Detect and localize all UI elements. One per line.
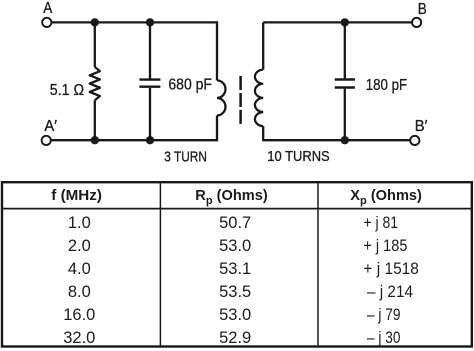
wire: top rail to primary coil top corner: [150, 22, 217, 80]
svg-text:180 pF: 180 pF: [366, 77, 407, 94]
table column separator 1: [159, 183, 161, 345]
svg-text:8.0: 8.0: [68, 283, 91, 301]
inductor secondary coil (10 TURNS): [255, 70, 263, 127]
capacitor C1 680 pF top plate: [139, 78, 160, 80]
svg-text:10 TURNS: 10 TURNS: [267, 149, 329, 165]
transformer core (dashed): [239, 76, 242, 124]
svg-text:A′: A′: [44, 118, 57, 135]
wire: A to resistor node (top rail): [52, 21, 95, 23]
svg-text:– j 79: – j 79: [367, 306, 401, 324]
terminal A': [42, 136, 51, 145]
wire: secondary coil top corner to top rail: [263, 22, 345, 69]
table header underline: [3, 208, 471, 210]
svg-text:16.0: 16.0: [63, 306, 95, 324]
wire: secondary coil bottom to bottom rail: [263, 126, 345, 140]
junction: top of 180 pF capacitor: [341, 18, 349, 26]
junction: top of 680 pF capacitor: [146, 18, 154, 26]
svg-text:– j 214: – j 214: [367, 283, 413, 301]
svg-text:4.0: 4.0: [68, 260, 91, 278]
wire: primary coil bottom to bottom rail corner: [150, 116, 217, 141]
svg-text:1.0: 1.0: [68, 214, 91, 232]
svg-text:680 pF: 680 pF: [168, 76, 212, 93]
terminal B': [410, 136, 419, 145]
svg-text:f (MHz): f (MHz): [51, 188, 102, 204]
svg-text:2.0: 2.0: [68, 237, 91, 255]
junction: bottom of 680 pF capacitor: [146, 136, 154, 144]
capacitor C2 180 pF bottom plate: [335, 86, 355, 88]
svg-text:Rp (Ohms): Rp (Ohms): [195, 188, 268, 207]
svg-text:53.0: 53.0: [219, 306, 251, 324]
svg-text:5.1 Ω: 5.1 Ω: [50, 82, 84, 99]
wire: resistor node to A': [51, 139, 94, 141]
table column separator 2: [317, 183, 319, 345]
resistor 5.1 ohm: [90, 67, 100, 100]
capacitor C2 180 pF bottom lead: [344, 89, 346, 141]
table frame: [2, 182, 472, 346]
capacitor C1 680 pF bottom plate: [139, 85, 160, 87]
svg-text:+ j 81: + j 81: [364, 214, 399, 232]
svg-text:B: B: [418, 1, 427, 18]
svg-text:50.7: 50.7: [219, 214, 251, 232]
svg-text:53.5: 53.5: [219, 283, 251, 301]
svg-text:B′: B′: [415, 118, 428, 135]
wire: capacitor node to B: [345, 21, 412, 23]
svg-text:– j 30: – j 30: [367, 329, 401, 347]
svg-text:53.0: 53.0: [219, 237, 251, 255]
svg-text:+ j 185: + j 185: [363, 237, 407, 255]
wire: resistor branch top lead: [94, 22, 96, 67]
inductor primary coil (3 TURN): [217, 80, 225, 115]
terminal B: [412, 18, 421, 27]
capacitor C2 180 pF top plate: [335, 78, 355, 80]
wire: resistor node to capacitor node (top rail): [95, 21, 150, 23]
svg-text:3 TURN: 3 TURN: [164, 150, 207, 166]
wire: capacitor node to B': [345, 139, 410, 141]
svg-text:A: A: [43, 0, 52, 17]
svg-text:+ j 1518: + j 1518: [363, 260, 419, 278]
svg-text:53.1: 53.1: [219, 260, 251, 278]
svg-text:52.9: 52.9: [219, 329, 251, 347]
junction: bottom of 180 pF capacitor: [341, 136, 349, 144]
terminal A: [42, 18, 51, 27]
capacitor C2 180 pF top lead: [344, 22, 346, 78]
capacitor C1 680 pF bottom lead: [149, 88, 151, 140]
junction: bottom of resistor: [91, 136, 99, 144]
junction: top of resistor: [91, 18, 99, 26]
wire: capacitor node to resistor node (bottom rail): [95, 139, 150, 141]
svg-text:Xp (Ohms): Xp (Ohms): [350, 188, 422, 207]
wire: resistor branch bottom lead: [94, 100, 96, 140]
svg-text:32.0: 32.0: [63, 329, 95, 347]
capacitor C1 680 pF top lead: [149, 22, 151, 78]
